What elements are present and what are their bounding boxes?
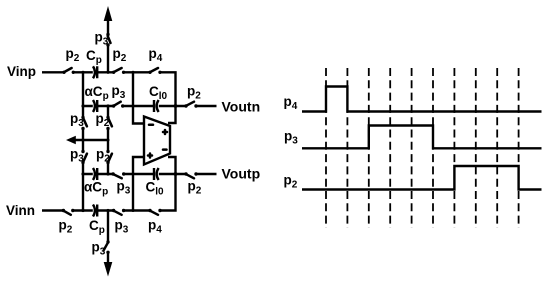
svg-text:Vinn: Vinn bbox=[6, 203, 35, 218]
svg-text:Voutp: Voutp bbox=[222, 165, 261, 181]
svg-text:Vinp: Vinp bbox=[7, 64, 36, 79]
svg-text:Voutn: Voutn bbox=[222, 99, 261, 115]
